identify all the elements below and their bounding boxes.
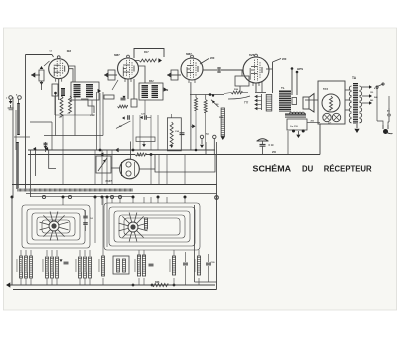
svg-text:PU: PU [206, 134, 210, 136]
svg-text:LC: LC [328, 122, 332, 125]
svg-text:T.I: T.I [387, 110, 390, 113]
svg-text:TL: TL [281, 86, 285, 90]
svg-text:HPS: HPS [297, 67, 303, 71]
svg-text:6E8: 6E8 [67, 50, 72, 53]
svg-text:6V6: 6V6 [249, 53, 255, 57]
svg-text:R17: R17 [144, 51, 149, 54]
svg-text:260: 260 [282, 57, 287, 61]
svg-text:130: 130 [370, 92, 373, 94]
svg-text:5Y3: 5Y3 [323, 87, 328, 91]
svg-text:SCHÉMADURÉCEPTEUR: SCHÉMADURÉCEPTEUR [253, 164, 372, 173]
svg-text:240: 240 [370, 99, 373, 102]
svg-text:250: 250 [272, 151, 277, 154]
svg-text:TA: TA [352, 76, 357, 80]
svg-text:C 19: C 19 [269, 145, 275, 147]
svg-text:6M7: 6M7 [114, 53, 120, 57]
svg-text:R39: R39 [164, 90, 169, 92]
svg-text:TT7: TT7 [244, 102, 249, 105]
svg-text:Csr C18: Csr C18 [290, 126, 298, 128]
svg-text:260: 260 [210, 56, 215, 60]
svg-text:R42: R42 [149, 80, 154, 83]
svg-text:R26: R26 [155, 281, 160, 284]
svg-text:6AF7: 6AF7 [106, 179, 113, 183]
